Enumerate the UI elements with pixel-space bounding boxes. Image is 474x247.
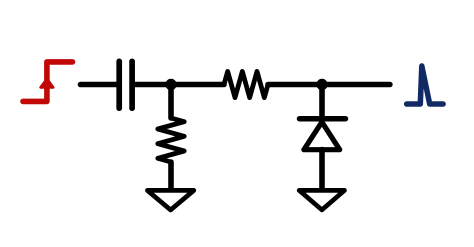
ground (under D1) [299,190,344,210]
wire: resistor R1 to ground [168,162,174,188]
wire: capacitor C1 to resistor R2 (through node A) [135,82,224,88]
wire: node B down to diode D1 [319,85,325,120]
diode D1 cathode bar [300,116,346,122]
capacitor C1 right plate [129,61,135,108]
node B junction dot [316,79,327,90]
resistor R2 (horizontal zigzag) [224,71,268,97]
resistor R1 (vertical zigzag) [158,118,184,162]
wire: node A down to resistor R1 [168,85,174,119]
node A junction dot [165,79,176,90]
step source arrow head (up) [41,79,54,88]
wire: source to capacitor C1 [81,82,117,88]
step source VIN (red step waveform symbol) [23,62,73,102]
capacitor C1 left plate [116,61,122,108]
output pulse VOUT (blue spike waveform symbol) [407,66,443,104]
wire: resistor R2 to output (through node B) [268,82,390,88]
diode D1 triangle (anode, pointing up) [304,122,340,150]
wire: diode D1 to ground [319,150,325,188]
ground (under R1) [147,190,193,210]
